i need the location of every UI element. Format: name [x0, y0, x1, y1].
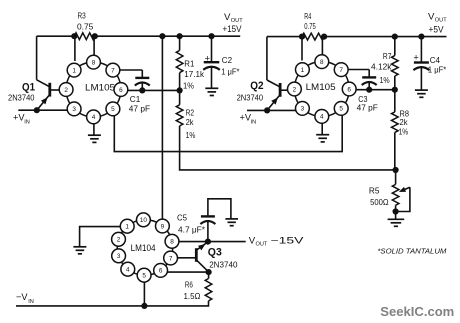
svg-text:7: 7 [111, 67, 115, 74]
svg-text:LM104: LM104 [131, 243, 156, 253]
svg-text:−15V: −15V [271, 236, 304, 246]
svg-text:4: 4 [126, 267, 130, 274]
svg-text:C2: C2 [222, 55, 233, 65]
svg-text:2N3740: 2N3740 [209, 260, 238, 270]
svg-text:6: 6 [347, 86, 351, 93]
svg-text:7: 7 [169, 255, 173, 262]
svg-text:5: 5 [111, 106, 115, 113]
svg-text:1: 1 [301, 67, 305, 74]
svg-text:5: 5 [142, 273, 146, 280]
svg-text:2k: 2k [400, 117, 409, 127]
svg-text:10: 10 [140, 217, 148, 224]
svg-text:7: 7 [339, 67, 343, 74]
svg-text:4.7 μF*: 4.7 μF* [178, 224, 206, 234]
svg-text:+15V: +15V [223, 24, 242, 34]
svg-text:C1: C1 [130, 94, 141, 104]
svg-text:47 pF: 47 pF [357, 102, 378, 112]
svg-text:8: 8 [170, 239, 174, 246]
svg-text:1: 1 [125, 224, 129, 231]
svg-text:47 pF: 47 pF [129, 104, 150, 114]
svg-text:1%: 1% [183, 81, 194, 91]
svg-text:−V: −V [16, 292, 28, 302]
svg-text:2: 2 [117, 237, 121, 244]
svg-text:Q2: Q2 [250, 80, 263, 92]
svg-text:LM105: LM105 [85, 82, 115, 92]
svg-text:1 μF*: 1 μF* [428, 65, 447, 75]
svg-text:Q3: Q3 [208, 246, 222, 258]
svg-text:2k: 2k [186, 117, 195, 127]
svg-text:2N3740: 2N3740 [237, 92, 264, 102]
svg-text:0.75: 0.75 [77, 22, 94, 32]
svg-text:1: 1 [72, 67, 76, 74]
svg-text:4: 4 [92, 114, 96, 121]
svg-text:R2: R2 [186, 107, 195, 117]
svg-text:8: 8 [92, 59, 96, 66]
svg-text:OUT: OUT [256, 241, 268, 247]
svg-text:LM105: LM105 [306, 82, 336, 92]
svg-text:*SOLID TANTALUM: *SOLID TANTALUM [377, 247, 447, 256]
svg-text:4: 4 [320, 114, 324, 121]
svg-text:C5: C5 [177, 213, 187, 223]
svg-text:6: 6 [159, 268, 163, 275]
svg-text:R7: R7 [383, 51, 392, 61]
svg-text:5: 5 [339, 106, 343, 113]
svg-text:1%: 1% [380, 75, 391, 85]
svg-text:1%: 1% [399, 127, 409, 137]
svg-text:4.12k: 4.12k [371, 61, 392, 71]
svg-text:R1: R1 [184, 58, 194, 68]
svg-text:8: 8 [320, 59, 324, 66]
svg-text:1 μF*: 1 μF* [221, 66, 240, 76]
svg-text:R5: R5 [369, 186, 380, 196]
svg-text:2: 2 [64, 87, 68, 94]
svg-text:3: 3 [72, 106, 76, 113]
svg-text:1.5Ω: 1.5Ω [184, 291, 201, 301]
svg-text:0.75: 0.75 [304, 21, 316, 31]
svg-text:+5V: +5V [429, 24, 444, 34]
svg-text:+: + [413, 53, 418, 63]
svg-text:3: 3 [301, 106, 305, 113]
svg-text:OUT: OUT [435, 18, 447, 24]
svg-text:IN: IN [28, 299, 34, 305]
svg-text:17.1k: 17.1k [184, 69, 205, 79]
svg-text:IN: IN [24, 119, 30, 125]
svg-text:2N3740: 2N3740 [8, 92, 35, 102]
svg-text:R3: R3 [78, 11, 87, 21]
svg-text:2: 2 [293, 86, 297, 93]
svg-text:R4: R4 [304, 11, 311, 21]
svg-text:3: 3 [117, 253, 121, 260]
svg-text:SeekIC.com: SeekIC.com [380, 304, 454, 319]
svg-text:R6: R6 [185, 279, 193, 289]
svg-text:9: 9 [161, 223, 165, 230]
svg-text:6: 6 [119, 87, 123, 94]
svg-text:1%: 1% [186, 130, 196, 140]
svg-text:500Ω: 500Ω [370, 197, 389, 207]
svg-text:IN: IN [251, 119, 257, 125]
svg-text:+: + [205, 53, 210, 63]
